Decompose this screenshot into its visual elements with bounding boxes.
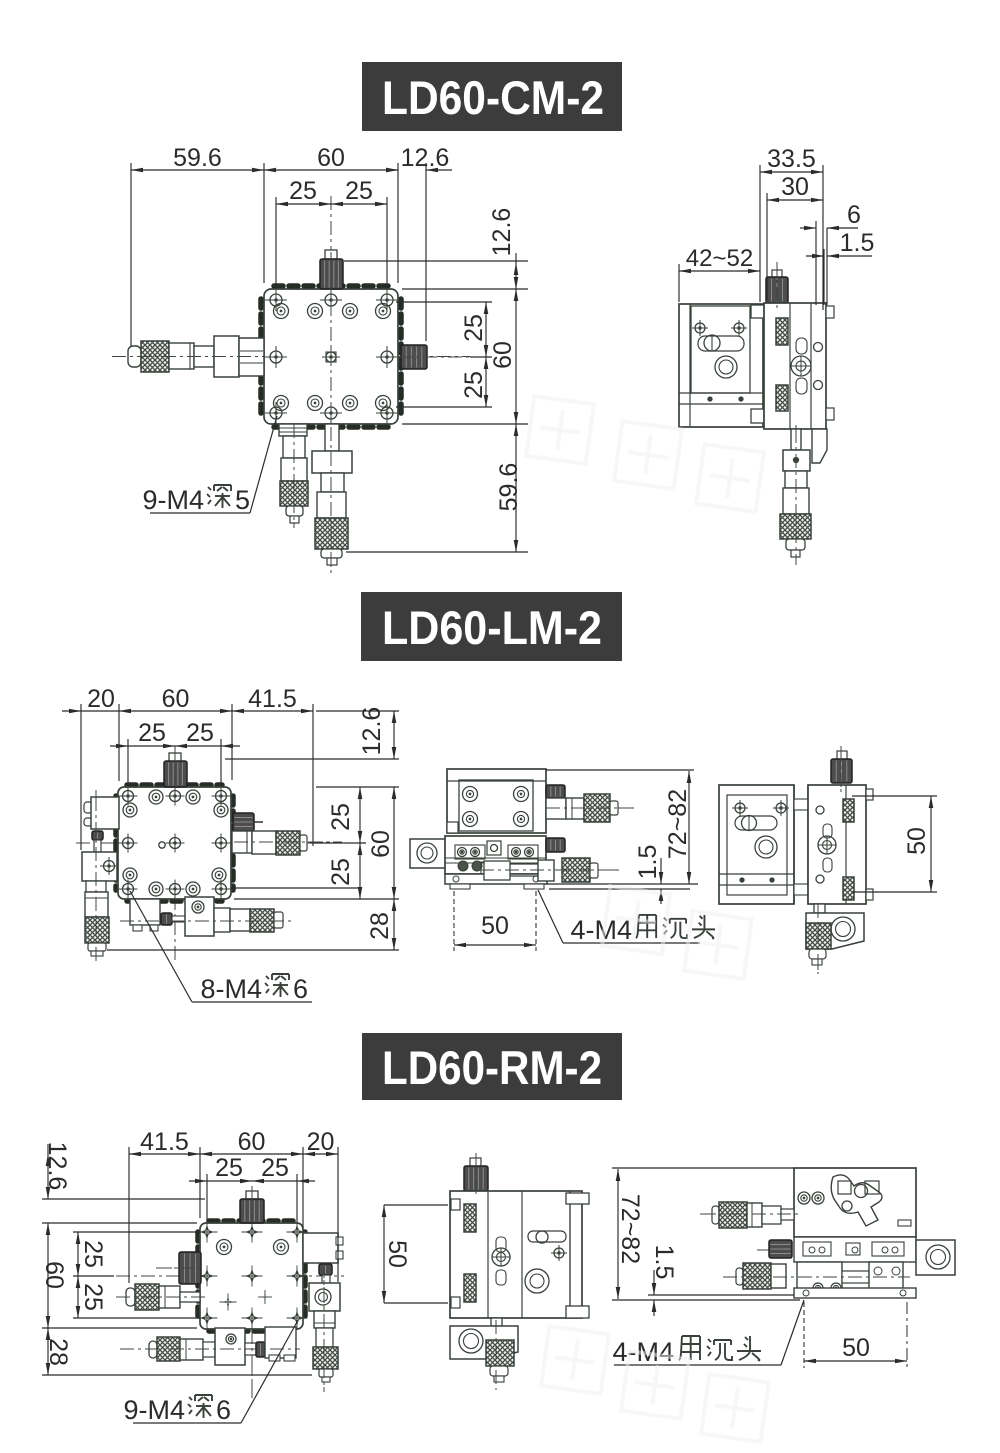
dim 30 (767, 173, 823, 202)
dim 72~82 RM (616, 1169, 644, 1299)
dim 20 top LM (62, 685, 119, 713)
svg-text:25: 25 (460, 371, 488, 399)
svg-text:9-M4: 9-M4 (142, 485, 204, 515)
right clamp knob RM (319, 1264, 332, 1284)
svg-text:50: 50 (842, 1334, 870, 1362)
upper micrometer LM side (546, 785, 634, 822)
svg-text:25: 25 (138, 719, 166, 747)
lower micrometer LM side (484, 838, 623, 882)
svg-text:1.5: 1.5 (840, 229, 875, 257)
dim 12.6 right CM (488, 208, 518, 289)
dim 59.6 right CM (495, 424, 523, 552)
svg-text:50: 50 (903, 827, 931, 855)
svg-text:9-M4: 9-M4 (123, 1395, 185, 1425)
bottom assembly LM (120, 897, 292, 936)
dim 6 (800, 201, 861, 230)
extension lines top dims LM (81, 704, 313, 850)
right view middle row RM (794, 1237, 916, 1262)
9x M4 screws grid RM (197, 1222, 308, 1329)
svg-text:1.5: 1.5 (634, 845, 662, 880)
svg-text:12.6: 12.6 (488, 208, 516, 257)
side view right body CM (764, 303, 834, 429)
centerline horizontal LM front (76, 842, 332, 844)
svg-text:60: 60 (238, 1128, 266, 1156)
dim 1.5 RM right (650, 1245, 678, 1316)
dim 41.5 top RM (129, 1128, 200, 1156)
title box LD60-LM-2 (361, 592, 622, 661)
extension lines right dims LM (107, 711, 399, 950)
dim 12.6 right LM (358, 707, 396, 759)
side view top block LM (447, 769, 546, 833)
callout 4-M4 counterbore LM (538, 890, 715, 945)
svg-text:33.5: 33.5 (767, 145, 816, 173)
svg-text:60: 60 (489, 341, 517, 369)
right vertical micrometer RM (313, 1262, 338, 1392)
svg-text:6: 6 (293, 974, 308, 1004)
right bracket RM (303, 1233, 343, 1263)
svg-text:12.6: 12.6 (401, 144, 450, 172)
watermark (526, 396, 769, 1442)
extension lines top dims RM (129, 1147, 338, 1283)
right view flange RM (916, 1240, 955, 1275)
centerline horizontal axis CM front (112, 356, 470, 358)
middle view bottom micrometer RM (450, 1318, 518, 1390)
dim 25 25 top RM (189, 1154, 315, 1183)
svg-text:25: 25 (186, 719, 214, 747)
bearing holes LM (123, 790, 228, 896)
svg-text:1.5: 1.5 (650, 1245, 678, 1280)
callout 9-M4 depth5 CM (142, 416, 277, 515)
centerline vertical LM front (174, 746, 176, 963)
svg-text:LD60-LM-2: LD60-LM-2 (382, 601, 602, 654)
dim 33.5 (760, 145, 823, 174)
left bracket and micrometer LM (82, 790, 119, 962)
svg-text:LD60-CM-2: LD60-CM-2 (382, 71, 604, 124)
left micrometer head CM (128, 336, 264, 377)
svg-text:6: 6 (847, 201, 861, 229)
title box LD60-RM-2 (362, 1033, 622, 1100)
extension lines top dims CM (131, 163, 426, 346)
svg-text:59.6: 59.6 (173, 144, 222, 172)
svg-text:6: 6 (216, 1395, 231, 1425)
dim 60 top RM (200, 1128, 303, 1156)
svg-text:25: 25 (327, 803, 355, 831)
svg-text:25: 25 (345, 177, 373, 205)
svg-text:25: 25 (261, 1154, 289, 1182)
svg-text:41.5: 41.5 (140, 1128, 189, 1156)
right view base plate RM (794, 1288, 916, 1298)
centerline bottom micrometer 1 (293, 420, 295, 528)
svg-text:5: 5 (235, 485, 250, 515)
9x M4 screws grid LM (119, 787, 231, 899)
svg-text:60: 60 (40, 1261, 68, 1289)
svg-text:LD60-RM-2: LD60-RM-2 (382, 1041, 602, 1094)
extension lines LM side dims (546, 770, 698, 889)
rear view top knob LM (831, 746, 852, 792)
stage body LM front (116, 785, 233, 901)
side view top knob CM (766, 270, 788, 303)
side view main block CM (679, 304, 763, 427)
rear view left plate LM (719, 785, 794, 904)
svg-text:12.6: 12.6 (43, 1142, 71, 1191)
middle view top knob RM (464, 1153, 488, 1198)
dim 25 upper left RM (76, 1232, 107, 1276)
dim 60 left RM (40, 1223, 68, 1328)
left micrometer RM (116, 1284, 205, 1310)
svg-text:25: 25 (289, 177, 317, 205)
dim 60 right LM (367, 787, 396, 899)
svg-text:25: 25 (215, 1154, 243, 1182)
bearing holes CM (274, 304, 391, 411)
dim 25 right upper CM (460, 302, 488, 357)
dim 25 lower left RM (76, 1276, 107, 1318)
dim 42~52 (679, 245, 760, 273)
right view lower micrometer RM (723, 1262, 910, 1295)
bottom micrometer 2 CM (312, 424, 352, 565)
left flange LM side (410, 839, 446, 868)
centerline vertical axis CM front (330, 196, 332, 573)
svg-text:20: 20 (87, 685, 115, 713)
svg-text:41.5: 41.5 (248, 685, 297, 713)
base plate LM side (445, 874, 547, 889)
dim 25 25 top LM (110, 719, 240, 748)
9x M4 screws grid CM (265, 289, 398, 424)
centerline vertical RM front (251, 1186, 253, 1398)
dim 50 bottom LM side (454, 891, 536, 951)
dim 1.5 LM side (634, 845, 663, 904)
dim 12.6 top CM (386, 144, 452, 172)
dim 50 middle RM (382, 1205, 448, 1303)
svg-text:20: 20 (307, 1128, 335, 1156)
title box LD60-CM-2 (362, 62, 622, 131)
svg-text:25: 25 (460, 314, 488, 342)
extension lines side dims CM (679, 165, 827, 310)
right adjustment knob CM (398, 345, 427, 369)
stage body RM front (198, 1221, 305, 1331)
dim 60 right CM (489, 289, 518, 424)
svg-text:25: 25 (79, 1240, 107, 1268)
top knob RM (240, 1191, 264, 1223)
centerline horizontal RM front (116, 1275, 344, 1277)
svg-text:28: 28 (366, 912, 394, 940)
svg-text:60: 60 (367, 830, 395, 858)
rear view middle strip LM (794, 785, 808, 904)
svg-text:60: 60 (162, 685, 190, 713)
stage body CM front view (261, 286, 401, 427)
top adjustment knob CM (320, 250, 343, 289)
right clamp nut LM (233, 813, 263, 831)
middle view body RM (450, 1191, 589, 1318)
right view upper micrometer RM (700, 1202, 800, 1228)
side view bottom micrometer CM (780, 425, 827, 565)
svg-text:72~82: 72~82 (664, 789, 692, 859)
svg-text:50: 50 (383, 1240, 411, 1268)
dim 20 top RM (303, 1128, 338, 1156)
dim 60 top LM (119, 685, 232, 713)
svg-text:59.6: 59.6 (495, 463, 523, 512)
dim 25 right lower CM (460, 357, 488, 407)
dim 50 rear LM (852, 796, 937, 892)
right L-bracket RM (309, 1283, 340, 1311)
lower stage block LM side (445, 836, 546, 874)
svg-text:72~82: 72~82 (616, 1194, 644, 1264)
right view clamp nut RM (757, 1240, 792, 1258)
bottom micrometer 1 CM (279, 424, 308, 523)
dim 72~82 LM (664, 771, 692, 884)
bearing holes RM (217, 1240, 289, 1311)
svg-text:30: 30 (781, 173, 809, 201)
svg-text:8-M4: 8-M4 (200, 974, 262, 1004)
svg-text:42~52: 42~52 (686, 245, 753, 272)
dim 28 left RM (44, 1328, 72, 1375)
rear view bottom micrometer LM (806, 904, 864, 974)
centerline overlays (96, 252, 908, 1398)
top knob LM (164, 753, 187, 787)
side view clamp plates CM (751, 305, 764, 423)
svg-text:25: 25 (79, 1283, 107, 1311)
dim 25 lower right LM (327, 843, 362, 899)
extension lines right dims CM (344, 261, 528, 552)
extension lines right dims RM (612, 1168, 800, 1300)
svg-text:25: 25 (327, 858, 355, 886)
svg-text:12.6: 12.6 (358, 707, 386, 756)
extension lines left dims RM (42, 1199, 312, 1375)
bottom assembly RM (120, 1327, 300, 1365)
dim 25 upper right LM (327, 787, 362, 843)
dim 60 top CM (264, 144, 398, 172)
dim 25 25 top CM (276, 177, 387, 206)
dim 50 bottom RM right (804, 1302, 907, 1368)
dim 12.6 left RM (43, 1142, 71, 1199)
rear view right block LM (808, 785, 873, 904)
callout 4-M4 counterbore RM (612, 1300, 804, 1367)
svg-text:28: 28 (44, 1338, 72, 1366)
right view top block RM (794, 1168, 916, 1237)
svg-text:60: 60 (317, 144, 345, 172)
svg-text:50: 50 (481, 912, 509, 940)
dim 59.6 top (131, 144, 264, 172)
dim 28 right LM (366, 899, 396, 950)
dim 41.5 top LM (232, 685, 313, 713)
callout 8-M4 depth6 LM (130, 891, 312, 1004)
left adjustment wheel RM (158, 1252, 201, 1284)
dim 1.5 side CM (806, 229, 874, 258)
right micrometer LM (232, 831, 342, 855)
callout 9-M4 depth6 RM (123, 1322, 297, 1425)
